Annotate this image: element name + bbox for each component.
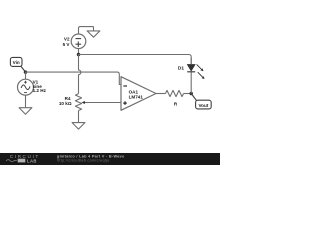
wire V2 bottom to 5V node: [78, 49, 80, 55]
svg-text:10 kΩ: 10 kΩ: [59, 101, 72, 106]
voltage source V2: [63, 34, 86, 49]
wire R4 bottom to ground: [78, 111, 80, 123]
svg-text:1.2 Hz: 1.2 Hz: [33, 88, 47, 93]
wire V2 node down to R4 (hops over Vin wire): [79, 55, 81, 94]
wire R to output node: [184, 93, 192, 95]
node 5V junction: [77, 53, 81, 57]
footer logo CIRCUITLAB: [6, 154, 40, 163]
svg-text:http://circuitlab.com/c/uqtje: http://circuitlab.com/c/uqtje: [57, 158, 110, 162]
ground (top, for V2): [87, 27, 100, 38]
svg-text:5 V: 5 V: [63, 42, 71, 47]
footer text: [57, 154, 124, 162]
net flag Vout: [191, 94, 211, 109]
footer bar: [0, 153, 220, 165]
svg-text:LM741: LM741: [129, 95, 144, 100]
wire V1 bottom to ground: [25, 95, 27, 108]
wire 5V rail to LED branch: [79, 55, 192, 65]
net flag Vin: [10, 57, 25, 72]
wire R4 wiper to op-amp non-inverting input: [85, 102, 121, 104]
node output junction: [189, 92, 193, 96]
wire V2 top to ground: [79, 27, 94, 34]
resistor R: [166, 90, 184, 106]
wire op-amp output to R: [156, 93, 166, 95]
svg-text:Vin: Vin: [13, 60, 20, 65]
LED D1: [178, 58, 205, 79]
op-amp OA1 LM741: [121, 77, 156, 111]
ground (below V1): [19, 108, 32, 115]
voltage source V1 (sine): [18, 79, 47, 95]
wire output node up to LED cathode: [190, 72, 192, 94]
node Vin junction: [24, 70, 28, 74]
ground (below R4): [72, 123, 85, 130]
svg-text:D1: D1: [178, 66, 184, 72]
svg-text:LAB: LAB: [27, 158, 37, 163]
wire Vin node to op-amp inverting input: [26, 72, 122, 84]
wire Vin node down to V1: [25, 72, 27, 79]
potentiometer R4 10 kΩ: [59, 94, 88, 111]
svg-text:Vout: Vout: [198, 103, 208, 108]
